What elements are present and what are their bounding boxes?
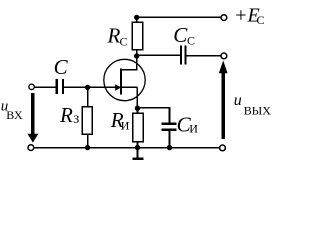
capacitor Ci	[162, 124, 177, 130]
wire Ri top lead	[137, 108, 139, 113]
svg-text:С: С	[257, 13, 265, 27]
svg-text:ВХ: ВХ	[6, 108, 23, 122]
label u-out	[234, 92, 271, 118]
transistor VT channel bar	[120, 69, 122, 95]
label R3	[59, 103, 79, 127]
wire RC bottom lead	[136, 50, 138, 56]
node drain (junction dot drain)	[134, 53, 139, 58]
svg-text:С: С	[120, 35, 128, 49]
resistor Ri	[133, 113, 143, 141]
arrow u-in	[27, 93, 38, 143]
resistor R3	[82, 107, 92, 134]
node gate (junction dot)	[85, 85, 90, 90]
arrow gate (JFET gate arrowhead)	[115, 84, 121, 90]
wire Ri bottom lead	[137, 142, 139, 148]
wire drain tap	[121, 55, 137, 69]
svg-text:R: R	[107, 23, 121, 47]
node drain top (junction dot at RC top)	[134, 15, 139, 20]
svg-text:C: C	[54, 55, 69, 79]
wire input to C	[34, 86, 55, 88]
node ground (junction dot)	[135, 145, 140, 150]
wire R3 bottom lead	[87, 134, 89, 147]
ground	[132, 148, 143, 159]
label +EC supply	[234, 4, 265, 27]
label Ri	[110, 108, 130, 133]
svg-text:И: И	[189, 121, 198, 135]
label CC	[173, 23, 195, 47]
capacitor CC	[181, 46, 186, 65]
terminal output	[221, 53, 227, 59]
svg-text:З: З	[73, 112, 79, 126]
wire C to gate and source tap	[64, 86, 137, 88]
terminal bottom left	[28, 145, 34, 151]
svg-text:u: u	[234, 92, 242, 109]
wire gate to R3	[87, 87, 89, 106]
label Ci	[177, 113, 199, 137]
node Ci bottom (junction dot)	[167, 145, 172, 150]
node source (junction dot)	[135, 106, 140, 111]
transistor VT (JFET) circle	[104, 59, 145, 100]
wire CC to output terminal	[186, 55, 221, 57]
svg-text:C: C	[173, 23, 188, 47]
node R3 bottom (junction dot)	[85, 145, 90, 150]
wire RC top lead	[136, 17, 138, 22]
terminal bottom right	[220, 145, 226, 151]
wire drain to CC	[137, 54, 180, 56]
wire source tap	[136, 87, 138, 108]
terminal +Ec	[221, 15, 227, 21]
capacitor C	[57, 79, 63, 94]
wire top supply rail	[137, 16, 221, 18]
svg-text:С: С	[187, 33, 195, 47]
svg-text:R: R	[59, 103, 73, 127]
svg-text:И: И	[121, 119, 130, 133]
resistor RC	[132, 22, 142, 49]
wire source to Ci	[138, 108, 170, 123]
wire bottom rail	[34, 147, 220, 149]
label C	[54, 55, 69, 79]
label RC	[107, 23, 128, 48]
terminal input	[29, 84, 34, 89]
arrow u-out	[219, 61, 228, 140]
wire Ci bottom lead	[169, 131, 171, 148]
label u-in	[1, 99, 23, 122]
svg-text:ВЫХ: ВЫХ	[244, 104, 271, 118]
